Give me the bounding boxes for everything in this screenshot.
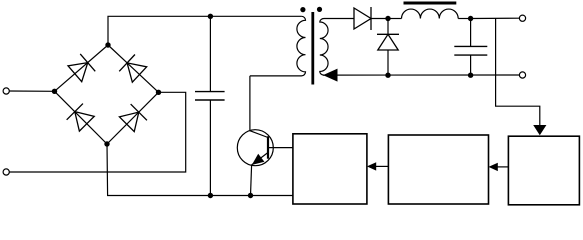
bridge edge left-top bbox=[55, 45, 109, 91]
transistor Q1 base wire to block U1 bbox=[268, 147, 293, 149]
bridge edge bottom-right bbox=[107, 92, 159, 144]
wire J2 to bridge right node riser bbox=[9, 92, 185, 172]
wire L1 to node B bbox=[458, 18, 470, 20]
node D6 anode on output return rail bbox=[385, 73, 390, 78]
capacitor C1 bottom lead bbox=[209, 100, 211, 196]
wire secondary top to diode D5 bbox=[324, 18, 354, 20]
transistor Q1 collector bbox=[250, 76, 268, 138]
bridge edge top-right bbox=[108, 45, 159, 92]
block U3 (feedback sense) bbox=[508, 136, 579, 205]
node bridge right bbox=[156, 90, 161, 95]
diode D2 bridge top-right bbox=[119, 54, 147, 82]
node bridge bottom bbox=[104, 141, 109, 146]
transformer T1 primary winding bbox=[250, 16, 306, 76]
wire node B to output terminal J3 bbox=[471, 17, 520, 19]
node bridge left bbox=[52, 89, 57, 94]
bridge edge bottom-left bbox=[55, 91, 108, 144]
node C1 ground junction bbox=[208, 193, 213, 198]
node bridge top bbox=[105, 42, 110, 47]
wire J1 to bridge left node bbox=[9, 90, 54, 92]
node A (D5 cathode junction) bbox=[385, 16, 390, 21]
diode D3 bridge bottom-left bbox=[67, 104, 95, 132]
input terminal J1 (upper) bbox=[3, 88, 9, 94]
diode D6 freewheel (pointing up) bbox=[377, 19, 399, 76]
transformer phase dot primary bbox=[300, 7, 305, 12]
transistor Q1 base bar bbox=[267, 136, 269, 158]
transistor Q1 emitter with arrow bbox=[251, 153, 269, 196]
wire U3 to U2 with arrowhead bbox=[489, 163, 509, 171]
node B (L1 / C2 junction) bbox=[468, 16, 473, 21]
inductor L1 core bar bbox=[404, 2, 457, 5]
wire bridge bottom to ground rail bbox=[107, 144, 293, 196]
capacitor C1 top lead bbox=[209, 16, 211, 91]
input terminal J2 (lower) bbox=[3, 169, 9, 175]
transformer T1 secondary winding bbox=[320, 19, 328, 76]
capacitor C2 top lead bbox=[470, 19, 472, 47]
diode D4 bridge bottom-right bbox=[119, 104, 147, 132]
inductor L1 winding bbox=[401, 9, 458, 18]
transformer T1 core bbox=[311, 12, 314, 85]
output terminal J3 (upper) bbox=[519, 15, 525, 21]
wire feedback tap bbox=[496, 18, 540, 126]
capacitor C2 bottom lead bbox=[470, 55, 472, 75]
wire D5 to node A bbox=[372, 18, 389, 20]
capacitor C1 plates bbox=[195, 92, 225, 100]
diode D1 bridge top-left bbox=[67, 54, 95, 83]
transformer phase dot secondary bbox=[317, 7, 322, 12]
block U1 (driver) bbox=[293, 134, 367, 204]
output terminal J4 (lower) bbox=[519, 72, 525, 78]
arrowhead feedback into block U3 bbox=[533, 125, 546, 135]
capacitor C2 plates bbox=[454, 46, 487, 55]
wire node A to inductor L1 bbox=[388, 18, 402, 20]
node Q1 emitter ground junction bbox=[248, 193, 253, 198]
wire bridge top node to top rail bbox=[108, 16, 302, 45]
wire U2 to U1 with arrowhead bbox=[367, 162, 389, 170]
node C2 on output return rail bbox=[468, 73, 473, 78]
transistor Q1 circle bbox=[237, 130, 273, 166]
block U2 (PWM control) bbox=[388, 135, 488, 204]
diode D5 series rectifier bbox=[354, 7, 371, 30]
node capacitor C1 top junction bbox=[208, 14, 213, 19]
output return rail with arrowhead into secondary bottom bbox=[323, 69, 519, 82]
